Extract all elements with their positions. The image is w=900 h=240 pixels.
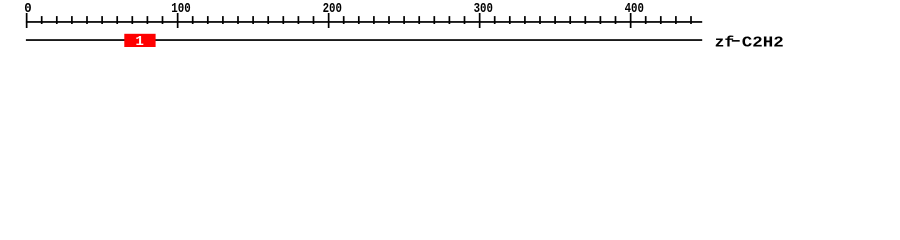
- ruler baseline: [26, 21, 702, 23]
- svg-text:zf: zf: [715, 35, 735, 52]
- domain box 1 (zf-C2H2): [124, 34, 155, 47]
- major tick 200: [328, 13, 330, 28]
- svg-text:C2H2: C2H2: [742, 35, 784, 52]
- protein domain graphic: ruler + sequence line + zf-C2H2 domain: [0, 0, 900, 58]
- svg-text:0: 0: [24, 2, 31, 17]
- major tick 0: [26, 13, 28, 28]
- sequence line: [26, 39, 702, 41]
- svg-text:300: 300: [474, 2, 493, 17]
- svg-text:200: 200: [323, 2, 342, 17]
- svg-text:1: 1: [135, 34, 144, 50]
- minor ticks (every 10 residues): [41, 16, 692, 24]
- svg-text:100: 100: [171, 2, 190, 17]
- major tick 100: [177, 13, 179, 28]
- svg-text:400: 400: [625, 2, 644, 17]
- major tick 400: [630, 13, 632, 28]
- domain name hyphen: [732, 40, 740, 42]
- ruler: [24, 2, 702, 28]
- ruler labels: [24, 2, 644, 17]
- major tick 300: [479, 13, 481, 28]
- background: [0, 0, 900, 58]
- domain name label zf-C2H2: [715, 35, 784, 52]
